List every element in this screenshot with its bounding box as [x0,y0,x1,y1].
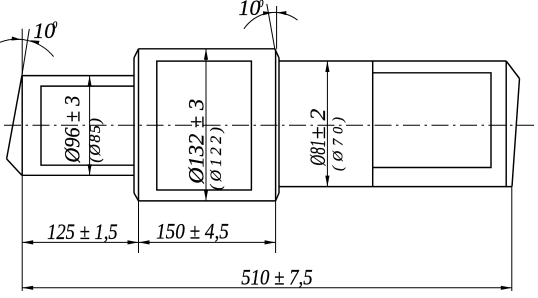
svg-text:Ø132 ± 3: Ø132 ± 3 [183,99,208,185]
svg-text:Ø81: Ø81 [305,140,330,167]
svg-text:0: 0 [52,20,57,31]
svg-text:10: 10 [239,0,261,20]
svg-text:(Ø122): (Ø122) [208,127,225,190]
svg-text:125 ± 1,5: 125 ± 1,5 [47,219,118,244]
svg-text:± 2: ± 2 [305,109,330,140]
svg-text:Ø96 ± 3: Ø96 ± 3 [60,96,85,164]
svg-text:0: 0 [259,0,264,10]
svg-text:150 ± 4,5: 150 ± 4,5 [156,219,229,244]
svg-text:510 ± 7,5: 510 ± 7,5 [241,265,312,290]
